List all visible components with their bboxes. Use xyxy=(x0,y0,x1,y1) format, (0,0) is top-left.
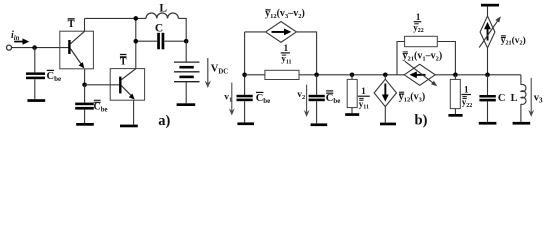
wire C to ground xyxy=(487,101,489,122)
bypass branch left wire xyxy=(397,42,405,75)
label Cbe double bar (b) xyxy=(326,91,341,105)
label Cbe double bar xyxy=(94,100,108,113)
node C branch right xyxy=(184,39,189,44)
inductor L xyxy=(146,13,178,18)
top terminal bar xyxy=(481,4,499,7)
ground (y12(v3)) xyxy=(380,123,396,126)
svg-text:y22: y22 xyxy=(462,97,473,109)
label v1 xyxy=(224,92,232,103)
ground (input branch) xyxy=(27,99,45,102)
resistor 1/y11 vertical box xyxy=(347,79,357,107)
wire to ground (v2) xyxy=(316,101,318,123)
svg-text:T: T xyxy=(120,57,127,68)
label v3 xyxy=(534,93,543,105)
label v2 xyxy=(297,90,305,101)
transistor T2 emitter with arrow xyxy=(121,86,134,100)
svg-text:L: L xyxy=(159,3,167,15)
svg-text:Cbe: Cbe xyxy=(256,93,271,105)
wire terminal to source xyxy=(487,7,489,17)
ground (1/y11 vertical) xyxy=(345,113,359,116)
svg-text:1: 1 xyxy=(361,86,366,96)
wire node down to Cbe2 xyxy=(84,85,86,103)
label a) xyxy=(158,113,170,129)
capacitor Cbe (bar) xyxy=(26,72,45,79)
inductor L (b) xyxy=(521,84,526,104)
input terminal xyxy=(7,45,12,50)
capacitor Cbe double bar (b) xyxy=(309,95,325,101)
svg-text:C: C xyxy=(498,93,506,104)
svg-text:L: L xyxy=(511,93,518,104)
wire v2 down xyxy=(316,75,318,95)
wire source to right corner xyxy=(296,32,316,75)
ground (Cbe2) xyxy=(76,123,94,126)
wire T2 emitter to ground xyxy=(133,100,135,124)
wire Cbe2 to ground xyxy=(84,110,86,123)
wire rail corner to L xyxy=(520,75,522,85)
wire diamond to ground xyxy=(384,107,386,123)
controlled source y12(v3) diamond xyxy=(374,79,396,106)
svg-text:v2: v2 xyxy=(297,90,305,101)
label 1/y22 double bar xyxy=(462,84,473,108)
node top wire xyxy=(134,16,139,21)
label L xyxy=(159,3,167,15)
label y12(v3-v2) xyxy=(265,8,305,20)
wire v3 down to C xyxy=(487,75,489,95)
wire to diamond y12(v3) xyxy=(384,75,386,79)
node emitter/base junction xyxy=(82,83,87,88)
svg-text:Cbe: Cbe xyxy=(94,101,108,113)
battery VDC xyxy=(174,62,200,82)
top supply wire xyxy=(85,17,147,19)
transistor T1 base bar xyxy=(68,40,70,54)
wire L to corner xyxy=(178,18,186,41)
wire T2 collector up xyxy=(135,18,137,68)
wire down to Cbe1 xyxy=(34,48,36,73)
label Cbe bar (b) xyxy=(256,92,271,105)
transistor T1 collector xyxy=(70,18,84,43)
ground (v2) xyxy=(311,123,328,126)
svg-text:Cbe: Cbe xyxy=(47,71,62,83)
wire L to ground xyxy=(520,104,522,122)
node v2 dot xyxy=(314,73,319,78)
svg-text:1: 1 xyxy=(464,84,469,94)
wire source to rail xyxy=(487,48,489,75)
wire battery to ground xyxy=(185,82,187,104)
node v1 wire xyxy=(244,32,246,95)
svg-text:1: 1 xyxy=(416,12,421,22)
ground (v1) xyxy=(237,122,254,125)
svg-text:v3: v3 xyxy=(534,93,543,105)
ground (L) xyxy=(513,122,531,125)
top left wire to source xyxy=(245,31,266,33)
node at input branch xyxy=(32,45,37,50)
wire to 1/y22 vertical box xyxy=(454,75,456,80)
v1 annotation arrow xyxy=(229,83,235,116)
label C (b) xyxy=(498,93,506,104)
controlled source y21(v1-v2) diamond xyxy=(404,64,435,85)
label C xyxy=(155,22,163,34)
label L (b) xyxy=(511,93,518,104)
label i_in xyxy=(11,30,20,42)
resistor 1/y22 box (top) xyxy=(405,36,438,46)
capacitor C xyxy=(157,33,164,50)
capacitor Cbe (double bar) xyxy=(75,103,94,110)
wire to 1/y11 vertical box xyxy=(351,75,353,80)
label y21(v2) double bar xyxy=(501,35,526,47)
svg-text:VDC: VDC xyxy=(211,63,229,75)
node v1 dot xyxy=(242,73,247,78)
wire emitter down to node xyxy=(84,69,86,85)
wire box to ground xyxy=(351,108,353,114)
wire Cbe-b to ground xyxy=(244,101,246,122)
label T double bar xyxy=(120,55,127,68)
wire input to base xyxy=(12,47,70,49)
transistor T2 collector xyxy=(121,69,136,80)
svg-text:T: T xyxy=(68,19,75,30)
svg-text:v1: v1 xyxy=(224,92,232,103)
label 1/y11 xyxy=(281,43,292,65)
resistor 1/y22 vertical box xyxy=(450,79,460,108)
svg-text:b): b) xyxy=(415,112,428,128)
svg-text:y12(v3–v2): y12(v3–v2) xyxy=(265,8,305,20)
v3 annotation arrow xyxy=(528,78,534,117)
controlled source y12(v3-v2) diamond xyxy=(266,22,297,43)
node y12(v3) source dot xyxy=(383,73,388,78)
label T bar xyxy=(68,19,75,30)
ground (T2 emitter) xyxy=(120,125,138,128)
svg-text:y21(v2): y21(v2) xyxy=(501,35,526,47)
svg-text:1: 1 xyxy=(284,43,289,53)
transistor T2 box xyxy=(110,69,144,101)
wire node to T2 base xyxy=(85,84,120,86)
svg-text:iin: iin xyxy=(11,30,20,42)
capacitor Cbe bar (b) xyxy=(237,95,253,101)
svg-text:y21(v1–v2): y21(v1–v2) xyxy=(403,51,443,63)
capacitor C (b) xyxy=(479,95,495,101)
v2 annotation arrow xyxy=(304,85,310,117)
transistor T2 base bar xyxy=(119,77,121,94)
label Cbe bar xyxy=(47,70,62,83)
svg-text:y11: y11 xyxy=(359,99,369,111)
wire down to battery xyxy=(185,41,187,62)
VDC annotation arrow xyxy=(205,58,211,88)
label 1/y11 double bar xyxy=(358,86,370,110)
node C branch left xyxy=(134,39,139,44)
label y21(v1-v2) double bar xyxy=(403,51,443,63)
transistor T1 emitter with arrow xyxy=(70,49,84,69)
node v3 dot xyxy=(485,73,490,78)
ground (1/y22 vertical) xyxy=(448,114,462,117)
svg-text:y12(v3): y12(v3) xyxy=(399,92,425,104)
transistor T1 box xyxy=(60,31,94,69)
node 1/y11 vertical dot xyxy=(350,73,355,78)
svg-text:Cbe: Cbe xyxy=(326,93,341,105)
svg-text:y11: y11 xyxy=(281,54,291,66)
svg-text:a): a) xyxy=(158,113,170,129)
node 1/y22 vertical dot xyxy=(453,73,458,78)
ground (battery) xyxy=(177,103,196,106)
controlled source y21(v2) diamond xyxy=(480,16,495,48)
resistor 1/y11 box xyxy=(265,70,299,79)
strike arrow through diamond xyxy=(405,61,437,86)
strike arrow through source xyxy=(479,16,501,47)
wire C branch xyxy=(136,40,186,42)
main rail xyxy=(245,74,521,76)
svg-text:C: C xyxy=(155,22,163,34)
bypass branch right wire xyxy=(437,42,455,75)
wire box to ground xyxy=(454,109,456,114)
wire Cbe to ground xyxy=(34,79,36,99)
input current arrow xyxy=(14,38,29,44)
label b) xyxy=(415,112,428,128)
label VDC xyxy=(211,63,229,75)
ground (C) xyxy=(479,122,497,125)
label 1/y22 (top) xyxy=(413,12,424,34)
label y12(v3) double bar xyxy=(399,92,425,104)
